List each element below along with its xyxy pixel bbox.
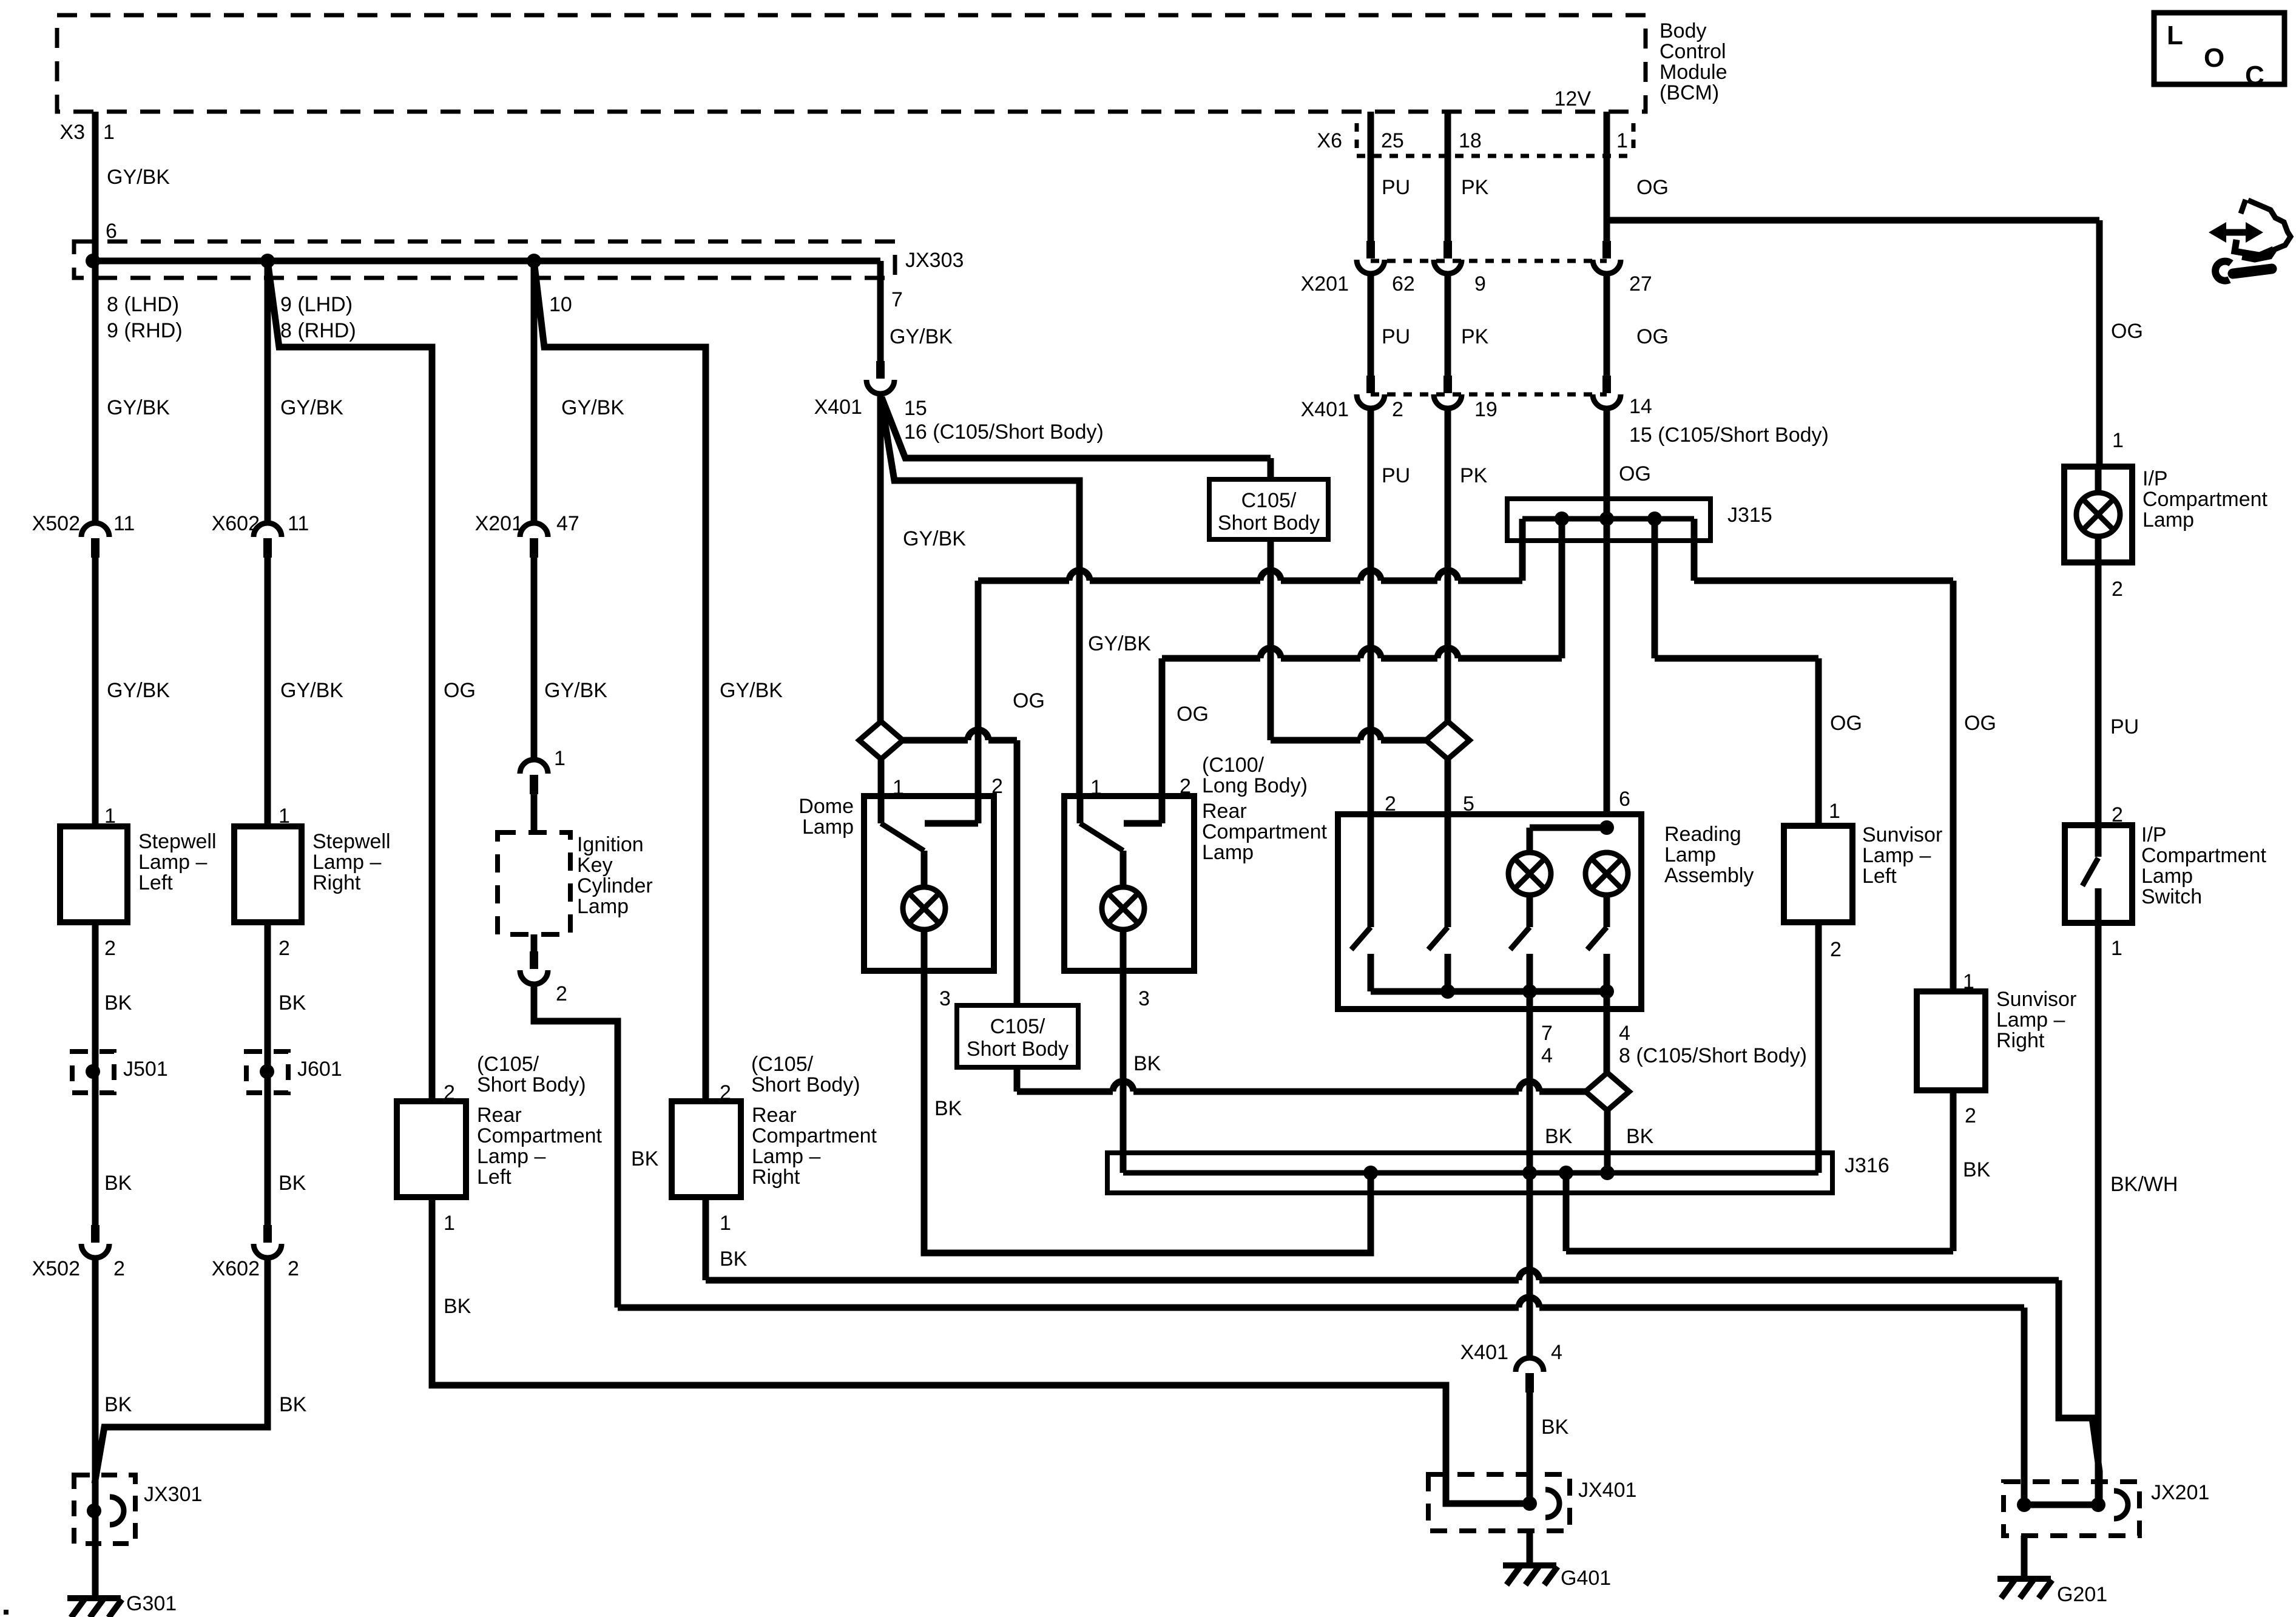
svg-text:J316: J316 <box>1845 1154 1889 1177</box>
svg-text:BK: BK <box>444 1295 471 1318</box>
svg-text:1: 1 <box>1829 800 1840 823</box>
svg-text:Control: Control <box>1660 40 1726 63</box>
svg-text:PU: PU <box>2110 715 2139 738</box>
svg-text:Short Body): Short Body) <box>477 1073 586 1096</box>
svg-text:BK: BK <box>279 1393 307 1416</box>
svg-text:1: 1 <box>554 747 566 770</box>
svg-text:Reading: Reading <box>1664 823 1741 846</box>
svg-text:C105/: C105/ <box>990 1015 1045 1038</box>
svg-text:Lamp: Lamp <box>2142 508 2194 532</box>
svg-text:X401: X401 <box>1301 398 1349 421</box>
svg-text:GY/BK: GY/BK <box>561 396 624 419</box>
svg-text:Right: Right <box>1996 1029 2045 1052</box>
svg-text:Stepwell: Stepwell <box>312 830 391 853</box>
svg-text:Rear: Rear <box>1202 800 1247 823</box>
svg-text:GY/BK: GY/BK <box>544 679 607 702</box>
svg-text:G201: G201 <box>2057 1583 2107 1606</box>
svg-text:JX201: JX201 <box>2151 1481 2209 1504</box>
svg-text:11: 11 <box>113 512 135 535</box>
svg-text:J315: J315 <box>1727 504 1772 527</box>
svg-text:6: 6 <box>106 220 117 243</box>
svg-text:BK: BK <box>720 1247 748 1271</box>
svg-text:(C105/: (C105/ <box>477 1053 539 1076</box>
svg-text:BK: BK <box>1545 1125 1573 1148</box>
svg-text:L: L <box>2167 21 2183 50</box>
svg-text:7: 7 <box>1541 1022 1553 1045</box>
svg-text:Compartment: Compartment <box>2142 488 2268 511</box>
svg-text:OG: OG <box>1177 703 1209 726</box>
svg-text:Left: Left <box>1862 865 1897 888</box>
svg-text:Lamp –: Lamp – <box>312 851 381 874</box>
svg-text:Key: Key <box>577 854 613 877</box>
svg-text:1: 1 <box>444 1212 455 1235</box>
svg-text:2: 2 <box>2112 578 2123 601</box>
svg-text:BK: BK <box>1626 1125 1654 1148</box>
svg-text:1: 1 <box>2111 937 2122 960</box>
svg-text:OG: OG <box>1636 325 1669 348</box>
svg-text:Dome: Dome <box>799 795 854 818</box>
svg-text:16 (C105/Short Body): 16 (C105/Short Body) <box>904 420 1104 444</box>
svg-text:Ignition: Ignition <box>577 833 644 856</box>
svg-text:2: 2 <box>279 937 290 960</box>
svg-text:(C100/: (C100/ <box>1202 754 1264 777</box>
svg-text:Lamp: Lamp <box>577 895 629 918</box>
svg-text:Stepwell: Stepwell <box>138 830 217 853</box>
svg-text:7: 7 <box>891 288 903 311</box>
svg-text:Short Body): Short Body) <box>751 1073 860 1096</box>
svg-text:X201: X201 <box>1301 272 1349 295</box>
svg-text:BK: BK <box>1541 1416 1569 1439</box>
svg-text:BK: BK <box>279 1172 306 1195</box>
svg-text:PK: PK <box>1461 325 1489 348</box>
svg-text:GY/BK: GY/BK <box>107 166 170 189</box>
svg-text:2: 2 <box>1830 938 1842 961</box>
svg-text:J601: J601 <box>297 1058 342 1081</box>
svg-text:X201: X201 <box>475 512 523 535</box>
svg-text:8 (RHD): 8 (RHD) <box>280 319 356 342</box>
svg-text:G401: G401 <box>1561 1567 1611 1590</box>
svg-text:3: 3 <box>1138 987 1150 1010</box>
svg-text:Right: Right <box>312 871 361 894</box>
svg-text:1: 1 <box>2112 429 2124 452</box>
svg-text:GY/BK: GY/BK <box>903 527 966 550</box>
svg-text:Assembly: Assembly <box>1664 864 1754 887</box>
svg-text:8 (LHD): 8 (LHD) <box>107 293 179 316</box>
svg-text:Left: Left <box>138 871 173 894</box>
svg-text:GY/BK: GY/BK <box>280 679 343 702</box>
svg-text:GY/BK: GY/BK <box>1088 632 1151 655</box>
svg-text:Compartment: Compartment <box>2141 844 2267 867</box>
svg-text:GY/BK: GY/BK <box>107 679 170 702</box>
svg-text:OG: OG <box>444 679 476 702</box>
svg-text:Cylinder: Cylinder <box>577 874 653 897</box>
svg-text:X6: X6 <box>1317 129 1342 152</box>
svg-text:GY/BK: GY/BK <box>890 325 953 348</box>
svg-text:C105/: C105/ <box>1241 489 1297 512</box>
svg-text:PU: PU <box>1382 325 1410 348</box>
svg-text:15 (C105/Short Body): 15 (C105/Short Body) <box>1629 424 1829 447</box>
svg-text:14: 14 <box>1629 395 1652 418</box>
svg-text:4: 4 <box>1551 1341 1562 1364</box>
svg-text:8 (C105/Short Body): 8 (C105/Short Body) <box>1619 1044 1807 1067</box>
svg-text:12V: 12V <box>1555 87 1592 110</box>
svg-text:Switch: Switch <box>2141 885 2202 908</box>
svg-text:I/P: I/P <box>2142 467 2168 490</box>
svg-text:Lamp –: Lamp – <box>1862 844 1931 867</box>
svg-text:Lamp: Lamp <box>2141 865 2193 888</box>
svg-text:C: C <box>2245 61 2264 90</box>
svg-text:BK: BK <box>104 1393 132 1416</box>
svg-text:Module: Module <box>1660 61 1727 84</box>
svg-text:JX401: JX401 <box>1578 1479 1636 1502</box>
svg-text:Right: Right <box>752 1166 800 1189</box>
svg-text:OG: OG <box>1619 462 1651 485</box>
svg-text:G301: G301 <box>126 1592 177 1615</box>
svg-text:(C105/: (C105/ <box>751 1053 814 1076</box>
svg-text:(BCM): (BCM) <box>1660 81 1719 104</box>
svg-text:PU: PU <box>1382 464 1410 487</box>
svg-text:4: 4 <box>1541 1044 1553 1067</box>
svg-text:2: 2 <box>1965 1104 1976 1127</box>
svg-text:Lamp: Lamp <box>1202 841 1254 864</box>
svg-text:Lamp: Lamp <box>802 815 854 839</box>
svg-text:X502: X502 <box>32 1257 80 1280</box>
svg-text:BK: BK <box>104 991 132 1014</box>
svg-text:1: 1 <box>1616 129 1628 152</box>
svg-text:Compartment: Compartment <box>1202 820 1328 843</box>
svg-text:OG: OG <box>2111 320 2143 343</box>
svg-text:J501: J501 <box>123 1058 168 1081</box>
svg-text:1: 1 <box>720 1212 731 1235</box>
svg-text:I/P: I/P <box>2141 823 2167 846</box>
svg-text:Lamp –: Lamp – <box>138 851 207 874</box>
svg-text:BK: BK <box>631 1147 659 1170</box>
svg-text:OG: OG <box>1013 689 1045 712</box>
svg-text:Long Body): Long Body) <box>1202 774 1308 797</box>
svg-text:Lamp –: Lamp – <box>752 1145 820 1168</box>
svg-text:O: O <box>2204 43 2224 73</box>
svg-text:Rear: Rear <box>752 1104 797 1127</box>
svg-text:JX301: JX301 <box>144 1483 202 1506</box>
svg-text:X401: X401 <box>814 396 862 419</box>
svg-text:15: 15 <box>904 397 927 420</box>
svg-text:PK: PK <box>1460 464 1488 487</box>
svg-text:OG: OG <box>1830 712 1862 735</box>
svg-text:BK: BK <box>1963 1158 1991 1181</box>
svg-text:9 (RHD): 9 (RHD) <box>107 319 183 342</box>
svg-text:BK/WH: BK/WH <box>2110 1173 2178 1196</box>
svg-text:X401: X401 <box>1460 1341 1508 1364</box>
svg-text:2: 2 <box>104 937 116 960</box>
svg-text:Lamp: Lamp <box>1664 843 1716 866</box>
svg-text:2: 2 <box>288 1257 299 1280</box>
svg-text:4: 4 <box>1619 1022 1630 1045</box>
svg-text:BK: BK <box>104 1172 132 1195</box>
svg-text:47: 47 <box>556 512 579 535</box>
svg-text:19: 19 <box>1474 398 1497 421</box>
svg-text:2: 2 <box>113 1257 125 1280</box>
svg-text:Sunvisor: Sunvisor <box>1862 823 1942 846</box>
svg-text:Compartment: Compartment <box>752 1124 877 1147</box>
svg-text:Body: Body <box>1660 19 1707 42</box>
svg-text:1: 1 <box>103 121 115 144</box>
svg-text:6: 6 <box>1619 788 1630 811</box>
svg-text:3: 3 <box>939 987 951 1010</box>
svg-text:10: 10 <box>549 293 572 316</box>
svg-text:2: 2 <box>556 982 567 1005</box>
svg-text:2: 2 <box>1392 398 1403 421</box>
svg-text:GY/BK: GY/BK <box>280 396 343 419</box>
svg-text:27: 27 <box>1629 272 1652 295</box>
svg-text:25: 25 <box>1381 129 1404 152</box>
svg-text:Rear: Rear <box>477 1104 522 1127</box>
svg-text:PU: PU <box>1382 176 1410 199</box>
svg-text:Short Body: Short Body <box>967 1038 1069 1061</box>
svg-text:X602: X602 <box>212 512 260 535</box>
svg-text:BK: BK <box>1133 1052 1161 1075</box>
svg-text:GY/BK: GY/BK <box>107 396 170 419</box>
svg-text:Short Body: Short Body <box>1218 511 1320 535</box>
svg-text:OG: OG <box>1636 176 1669 199</box>
svg-text:OG: OG <box>1964 712 1996 735</box>
svg-text:X602: X602 <box>212 1257 260 1280</box>
svg-text:Lamp –: Lamp – <box>1996 1008 2065 1031</box>
svg-text:11: 11 <box>288 512 309 535</box>
svg-text:18: 18 <box>1459 129 1482 152</box>
svg-text:9: 9 <box>1474 272 1486 295</box>
svg-text:PK: PK <box>1461 176 1489 199</box>
svg-text:Lamp –: Lamp – <box>477 1145 545 1168</box>
svg-text:X502: X502 <box>32 512 80 535</box>
svg-text:BK: BK <box>279 991 306 1014</box>
svg-text:GY/BK: GY/BK <box>720 679 783 702</box>
svg-text:62: 62 <box>1392 272 1415 295</box>
svg-text:JX303: JX303 <box>905 249 964 272</box>
svg-text:X3: X3 <box>59 121 85 144</box>
svg-text:9 (LHD): 9 (LHD) <box>280 293 353 316</box>
svg-text:Compartment: Compartment <box>477 1124 603 1147</box>
svg-text:Sunvisor: Sunvisor <box>1996 988 2076 1011</box>
svg-text:BK: BK <box>934 1097 962 1120</box>
svg-text:Left: Left <box>477 1166 512 1189</box>
